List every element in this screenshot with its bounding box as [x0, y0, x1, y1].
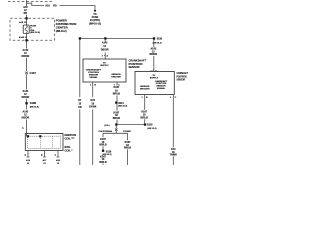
svg-text:DB/OR: DB/OR — [22, 117, 30, 120]
svg-text:SIGNAL: SIGNAL — [89, 76, 98, 79]
svg-text:SUPPLY: SUPPLY — [100, 65, 109, 67]
svg-text:OTHER: OTHER — [123, 131, 131, 133]
svg-text:TN/BK: TN/BK — [170, 154, 178, 157]
svg-text:RAIL: RAIL — [65, 145, 71, 149]
svg-text:(8W-15-2): (8W-15-2) — [118, 106, 127, 108]
svg-text:S110: S110 — [157, 38, 163, 41]
svg-text:S118: S118 — [106, 150, 112, 153]
svg-text:DB/OR: DB/OR — [149, 53, 157, 56]
svg-text:COIL *: COIL * — [65, 149, 73, 153]
svg-text:A16: A16 — [45, 4, 50, 7]
svg-text:(8W-10-8): (8W-10-8) — [30, 106, 39, 108]
svg-text:SUPPLY: SUPPLY — [150, 77, 159, 79]
svg-text:(8W-10-11): (8W-10-11) — [89, 22, 101, 25]
svg-text:SIGNAL: SIGNAL — [157, 87, 166, 90]
svg-text:BR/LB: BR/LB — [141, 116, 149, 119]
svg-text:(2.5L): (2.5L) — [104, 125, 109, 127]
svg-text:RD: RD — [53, 4, 57, 7]
svg-text:BR/LB: BR/LB — [99, 161, 107, 164]
svg-text:S115: S115 — [147, 123, 153, 126]
svg-text:GROUND: GROUND — [140, 88, 150, 90]
svg-text:RD: RD — [24, 12, 28, 15]
svg-text:GROUND: GROUND — [111, 76, 121, 78]
svg-text:S188: S188 — [30, 101, 37, 105]
svg-text:BR/LB: BR/LB — [113, 93, 121, 96]
svg-text:DB/OR: DB/OR — [101, 48, 109, 51]
svg-text:OR: OR — [78, 106, 82, 109]
svg-text:BR/LB: BR/LB — [99, 144, 107, 147]
svg-text:(8W-12-9): (8W-12-9) — [30, 32, 40, 34]
svg-text:SENSOR: SENSOR — [177, 78, 186, 82]
svg-text:C107: C107 — [30, 71, 37, 75]
svg-text:GY/BK: GY/BK — [89, 106, 97, 109]
svg-text:IGNITION: IGNITION — [65, 133, 77, 137]
svg-text:(8W-10-2): (8W-10-2) — [56, 30, 67, 33]
svg-text:BR/LB: BR/LB — [113, 117, 121, 120]
svg-text:DB/OR: DB/OR — [22, 96, 30, 99]
svg-text:A16 12: A16 12 — [19, 21, 27, 24]
svg-text:SENSOR: SENSOR — [129, 65, 141, 69]
svg-text:DB/OR: DB/OR — [22, 55, 30, 58]
svg-text:CALIFORNIA: CALIFORNIA — [99, 130, 113, 133]
svg-text:COIL ***: COIL *** — [65, 136, 75, 140]
svg-text:(8W-15-2): (8W-15-2) — [148, 128, 157, 130]
svg-text:BR/LB: BR/LB — [124, 147, 132, 150]
